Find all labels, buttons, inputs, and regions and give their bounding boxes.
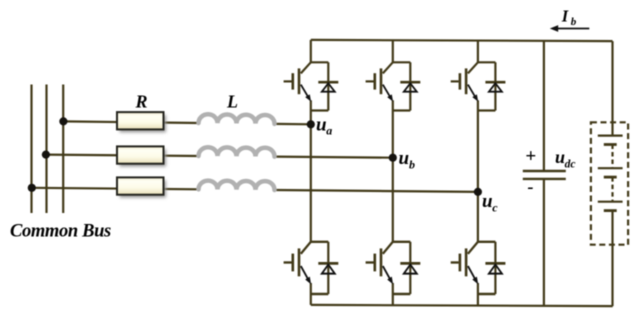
svg-text:+: + xyxy=(525,146,536,167)
svg-text:Common Bus: Common Bus xyxy=(10,221,111,241)
svg-text:u: u xyxy=(399,148,410,169)
svg-text:dc: dc xyxy=(565,159,576,171)
svg-text:u: u xyxy=(555,147,565,167)
svg-text:a: a xyxy=(326,124,332,138)
svg-text:I: I xyxy=(561,6,569,25)
svg-text:b: b xyxy=(571,16,577,28)
svg-text:L: L xyxy=(226,91,238,111)
svg-text:u: u xyxy=(482,191,493,212)
svg-text:u: u xyxy=(316,114,327,135)
svg-text:b: b xyxy=(409,158,415,172)
svg-text:-: - xyxy=(528,176,534,196)
svg-text:c: c xyxy=(492,201,498,215)
svg-text:R: R xyxy=(135,91,148,111)
